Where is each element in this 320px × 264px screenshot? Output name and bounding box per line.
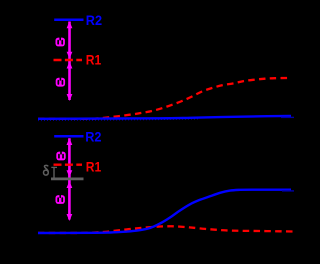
navy tail at right end (top panel) — [281, 116, 294, 118]
grey detuning bracket — [53, 167, 55, 179]
arrowhead up at R2 (top) — [67, 21, 73, 28]
level R1 dashed line (bottom diagram) — [54, 163, 83, 165]
navy dotted baseline curve (top panel) — [38, 119, 200, 121]
photon label omega 1 (top) — [56, 38, 65, 47]
svg-text:R2: R2 — [85, 129, 101, 145]
label delta — [44, 165, 49, 175]
grey virtual level line (bottom diagram) — [51, 178, 84, 181]
red dashed population curve (top panel) — [38, 78, 290, 119]
photon arrow shaft (top diagram) — [68, 22, 71, 101]
photon arrow shaft (bottom diagram) — [68, 138, 71, 219]
arrowhead down at R1 top side (top) — [67, 52, 73, 59]
svg-text:R1: R1 — [86, 158, 102, 174]
arrowhead up below grey line (bottom) — [67, 181, 73, 188]
arrowhead down at grey line (bottom) — [67, 170, 73, 177]
photon label omega 1 (bottom) — [56, 152, 65, 161]
svg-text:R1: R1 — [86, 52, 102, 68]
arrowhead down at bottom (top) — [67, 94, 73, 101]
red dashed population curve (bottom panel) — [38, 226, 293, 233]
level R1 dashed line (top diagram) — [54, 59, 83, 61]
level R2 line (bottom diagram) — [54, 135, 83, 138]
arrowhead up below R1 (top) — [67, 62, 73, 69]
blue solid population curve (bottom panel) — [38, 190, 291, 233]
navy tail at right end (bottom panel) — [282, 190, 294, 192]
photon label omega 2 (bottom) — [56, 195, 65, 204]
arrowhead down at bottom (bottom) — [67, 214, 73, 221]
blue solid population curve (top panel) — [38, 116, 291, 119]
level R2 line (top diagram) — [54, 18, 83, 21]
arrowhead up at R2 (bottom) — [67, 138, 73, 145]
photon label omega 2 (top) — [56, 78, 65, 87]
svg-text:R2: R2 — [86, 12, 102, 28]
